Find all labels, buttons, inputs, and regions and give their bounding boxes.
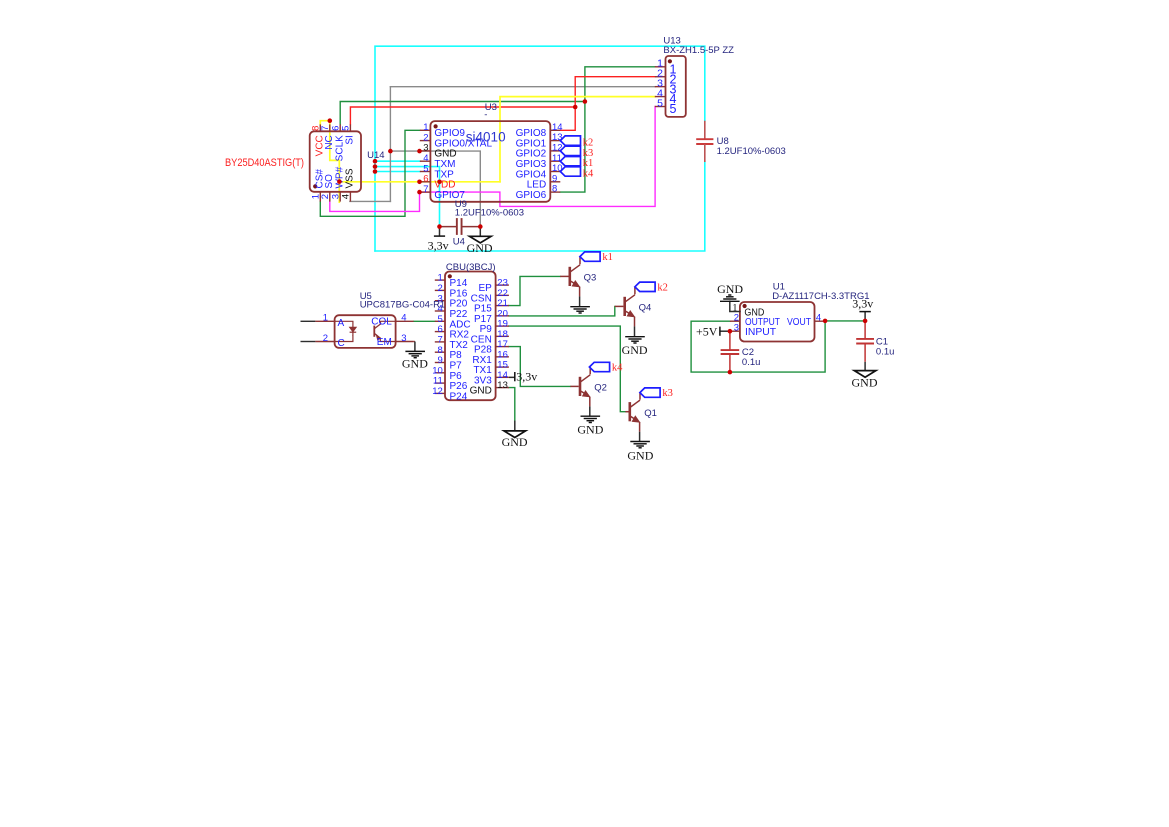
IC U1 pin 1 marker: [743, 304, 747, 308]
svg-text:4: 4: [401, 313, 406, 324]
junction VOUT pin 4: [823, 319, 828, 324]
svg-text:Q2: Q2: [594, 383, 607, 394]
wire green U5 COL to CBU ADC: [414, 320, 435, 322]
wire yellow VCC net from U14: [320, 121, 339, 202]
svg-text:SO: SO: [324, 174, 335, 189]
svg-text:C: C: [338, 338, 345, 349]
svg-text:k4: k4: [612, 363, 623, 374]
net flag k3 at Q1 collector: [640, 388, 660, 397]
capacitor C2 bottom lead: [729, 354, 731, 372]
capacitor C1 bottom lead: [864, 344, 866, 362]
junction cyan TXM: [373, 159, 378, 164]
svg-text:BX-ZH1.5-5P ZZ: BX-ZH1.5-5P ZZ: [663, 45, 734, 56]
svg-text:k1: k1: [602, 252, 613, 263]
wire green CBU pin13 to GND: [509, 388, 515, 421]
wire green VOUT to C1: [825, 320, 865, 322]
svg-text:3: 3: [401, 333, 406, 344]
optocoupler U5 right pin stubs: [396, 320, 414, 322]
junction U14 pin7 top: [328, 118, 333, 123]
power port 3,3v at CBU pin14: [509, 376, 515, 378]
junction red tee: [573, 105, 578, 110]
ground at Q3: [570, 306, 590, 308]
svg-text:si4010: si4010: [466, 130, 506, 145]
junction U9 left 3,3v: [437, 224, 442, 229]
transistor Q3: [560, 275, 568, 277]
svg-text:1.2UF10%-0603: 1.2UF10%-0603: [717, 146, 786, 157]
IC U3 si4010 body: [430, 121, 550, 202]
ground GND above U1: [720, 300, 740, 302]
net flag k4 on GPIO4 pin 10: [560, 167, 580, 176]
wire green U1 output loop: [691, 321, 825, 372]
svg-text:5: 5: [657, 97, 663, 109]
svg-text:12: 12: [432, 386, 443, 397]
svg-text:5: 5: [341, 126, 352, 131]
wire green U14 pin6 to U13 pin1 and GPIO6: [340, 102, 585, 125]
wire cyan TXP branch: [375, 171, 420, 173]
capacitor C1 top lead: [864, 321, 866, 339]
svg-text:GND: GND: [402, 357, 428, 371]
wire gray GND net vertical: [389, 87, 391, 202]
transistor Q1: [625, 411, 628, 413]
junction yellow inside U14: [337, 179, 342, 184]
junction C2 bottom: [728, 370, 733, 375]
wire gray to U13 pin3: [390, 86, 655, 88]
IC U14 BY25D40ASTIG(T) body: [310, 131, 361, 192]
svg-text:+5V: +5V: [696, 325, 718, 339]
svg-text:7: 7: [320, 126, 331, 131]
svg-text:GND: GND: [852, 375, 878, 389]
svg-text:k2: k2: [657, 282, 668, 293]
junction +5V INPUT C2: [728, 329, 733, 334]
capacitor U8 lead bottom: [704, 144, 706, 162]
wire gray U14 pin4 segment: [350, 200, 391, 202]
wire yellow VDD horizontal: [339, 181, 500, 183]
svg-text:3: 3: [734, 323, 739, 334]
wire magenta U14 SO to GPIO7: [330, 192, 420, 211]
net flag k3 on GPIO2 pin 12: [560, 146, 580, 155]
IC CBU right pin stubs: [496, 284, 509, 286]
svg-text:GND: GND: [717, 282, 743, 296]
svg-text:GND: GND: [627, 449, 653, 463]
connector U13 pin stubs: [655, 66, 666, 68]
wire cyan middle branch: [375, 167, 440, 227]
svg-text:EM: EM: [377, 337, 392, 348]
power port 3,3v at U9: [439, 227, 441, 237]
net flag k4 at Q2 collector: [589, 362, 609, 371]
ground GND at U9 right: [479, 227, 481, 237]
svg-text:0.1u: 0.1u: [876, 347, 895, 358]
junction gray U3 GND pin: [417, 149, 422, 154]
svg-text:GND: GND: [467, 241, 493, 255]
svg-text:COL: COL: [371, 317, 392, 328]
svg-text:UPC817BG-C04-R1: UPC817BG-C04-R1: [360, 300, 446, 311]
capacitor C2 plates: [721, 349, 740, 351]
svg-text:Q4: Q4: [639, 302, 652, 313]
svg-text:0.1u: 0.1u: [742, 357, 761, 368]
svg-text:GND: GND: [577, 422, 603, 436]
wire gray to U3 GND pin: [390, 151, 480, 227]
svg-text:Q3: Q3: [584, 272, 597, 283]
wire green P15 to Q3 base: [509, 276, 560, 305]
svg-text:P24: P24: [450, 391, 468, 402]
connector U13 pin 1 marker: [668, 59, 672, 63]
svg-text:U4: U4: [453, 237, 465, 248]
junction green tee: [583, 99, 588, 104]
capacitor U9 left lead: [440, 226, 457, 228]
svg-text:3,3v: 3,3v: [852, 297, 873, 311]
power port +5V at U1 INPUT: [720, 330, 730, 332]
capacitor U9 right lead: [462, 226, 481, 228]
svg-text:SI: SI: [345, 135, 356, 144]
svg-text:A: A: [338, 318, 345, 329]
net flag k1 at Q3 collector: [580, 252, 600, 261]
svg-text:4: 4: [816, 313, 821, 324]
wire red U14 SI to U13 pin2 and GPIO8: [350, 107, 575, 125]
capacitor U8 lead top: [704, 121, 706, 140]
wire cyan loop bottom: [375, 162, 705, 251]
svg-text:4: 4: [341, 194, 352, 199]
svg-text:BY25D40ASTIG(T): BY25D40ASTIG(T): [225, 157, 304, 169]
svg-text:GND: GND: [622, 343, 648, 357]
IC CBU(3BCJ) microcontroller body: [445, 272, 496, 401]
wire red branch down to GPIO8: [560, 107, 575, 130]
IC U1 pin stubs: [730, 320, 740, 322]
wire green branch up to U13 pin1: [585, 67, 655, 102]
svg-text:INPUT: INPUT: [745, 327, 776, 338]
svg-text:7: 7: [423, 184, 428, 195]
junction gray vertical: [388, 149, 393, 154]
svg-text:-: -: [484, 110, 487, 121]
wire yellow up to U13 pin4: [500, 97, 655, 182]
optocoupler U5 internal LED: [335, 321, 353, 326]
svg-text:GPIO6: GPIO6: [516, 190, 547, 201]
svg-text:2: 2: [320, 194, 331, 199]
svg-text:GND: GND: [502, 435, 528, 449]
svg-text:5: 5: [670, 102, 677, 116]
junction C1 top 3,3v: [863, 319, 868, 324]
optocoupler U5 UPC817BG-C04-R1 body: [335, 315, 396, 348]
svg-text:k4: k4: [583, 168, 594, 179]
ground GND at Q2: [581, 415, 601, 417]
wire red branch up to U13 pin2: [575, 77, 655, 107]
IC U3 pin 1 marker: [434, 124, 438, 128]
transistor Q2: [570, 385, 578, 387]
IC CBU left pin stubs: [435, 279, 445, 281]
wire cyan TX loop: [375, 46, 705, 251]
net flag k2 at Q4 collector: [635, 282, 655, 291]
junction cyan TXP: [373, 169, 378, 174]
IC U14 pin 1 marker: [313, 184, 317, 188]
ground GND below C1: [854, 371, 876, 378]
wire green branch down to GPIO6: [560, 102, 585, 193]
IC U3 left pin stubs: [420, 129, 431, 131]
ground GND at U5 EM: [405, 350, 425, 352]
svg-text:NC: NC: [324, 135, 335, 149]
optocoupler U5 left wires: [301, 320, 316, 322]
capacitor U9 plates: [456, 218, 458, 235]
svg-text:k3: k3: [662, 388, 673, 399]
svg-text:Q1: Q1: [644, 408, 657, 419]
power port 3,3v at C1: [864, 312, 866, 321]
capacitor U8 plates: [696, 138, 713, 140]
optocoupler U5 left pin stubs: [315, 320, 334, 322]
svg-text:1: 1: [323, 313, 328, 324]
net flag k1 on GPIO3 pin 11: [560, 157, 580, 166]
svg-text:2: 2: [323, 333, 328, 344]
connector U13 BX-ZH1.5-5P ZZ body: [666, 56, 686, 117]
wire C1 to ground: [864, 362, 866, 371]
svg-text:3,3v: 3,3v: [516, 370, 537, 384]
IC U14 top pin stubs: [319, 124, 321, 131]
junction magenta GPIO7 pin: [417, 190, 422, 195]
optocoupler U5 internal phototransistor: [373, 326, 375, 337]
transistor Q4: [615, 305, 624, 307]
ground GND at CBU pin13: [514, 421, 516, 431]
IC CBU pin 1 marker: [448, 274, 452, 278]
wire green P28 to Q2 base: [509, 347, 571, 387]
junction cyan middle: [373, 164, 378, 169]
junction cyan-yellow crossing: [437, 180, 442, 185]
wire green P17 to Q4 base: [509, 306, 615, 316]
IC U3 right pin stubs: [550, 129, 560, 131]
wire cyan TXM branch: [375, 160, 420, 162]
wire U5 EM to ground: [414, 341, 415, 343]
ground GND at Q1: [630, 441, 650, 443]
junction U9 right GND: [478, 224, 483, 229]
svg-text:GND: GND: [470, 386, 492, 397]
svg-text:1.2UF10%-0603: 1.2UF10%-0603: [455, 208, 524, 219]
IC U14 bottom pin stubs: [319, 192, 321, 202]
wire green P9 to Q1 base: [509, 326, 626, 412]
svg-text:3,3v: 3,3v: [428, 239, 449, 253]
wire green U14 CS# to GPIO9: [320, 130, 420, 216]
svg-text:VOUT: VOUT: [787, 317, 811, 328]
svg-text:8: 8: [552, 184, 557, 195]
capacitor C2 top lead: [729, 331, 731, 350]
net flag k2 on GPIO1 pin 13: [560, 136, 580, 145]
wire magenta GPIO7 to U13 pin5: [420, 107, 656, 207]
svg-text:13: 13: [497, 380, 508, 391]
IC U1 D-AZ1117CH-3.3TRG1 body: [740, 302, 815, 342]
IC U1 pin 1 GND connection: [730, 301, 740, 311]
capacitor C1 plates: [856, 338, 874, 340]
junction yellow VDD pin: [417, 180, 422, 185]
svg-text:VSS: VSS: [345, 168, 356, 188]
ground GND at Q4: [625, 336, 645, 338]
svg-text:CBU(3BCJ): CBU(3BCJ): [446, 262, 496, 273]
